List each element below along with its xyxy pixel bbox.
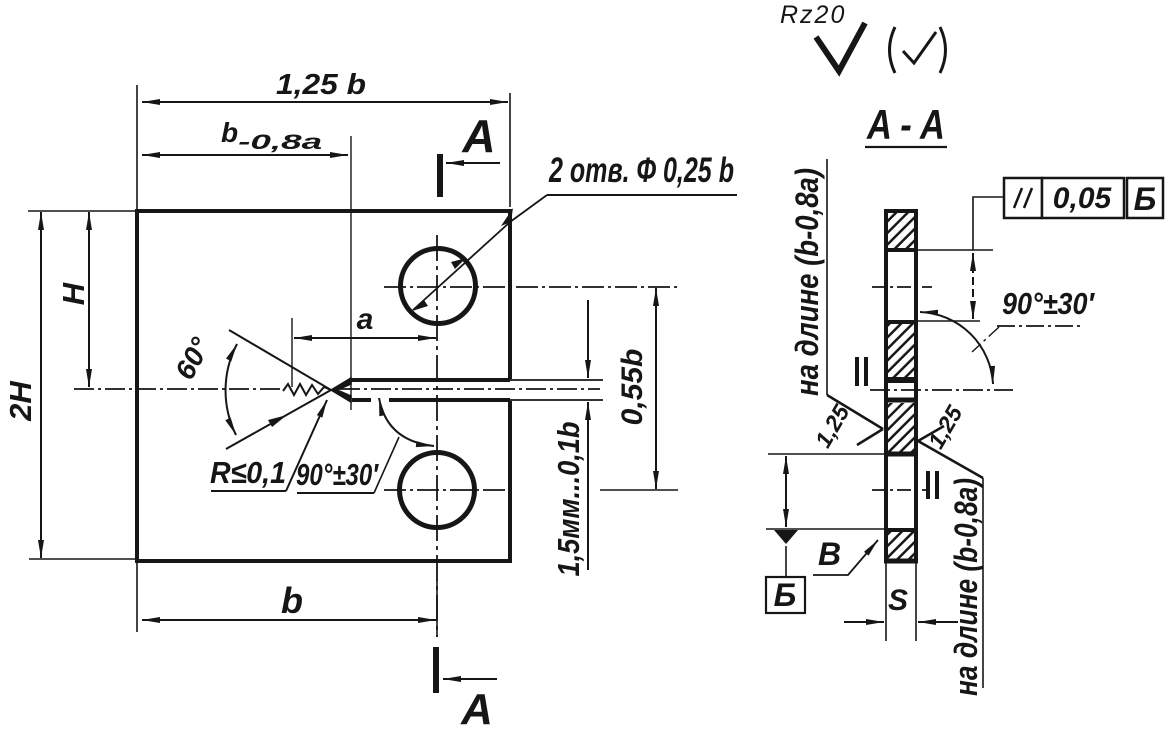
parallel mark right xyxy=(926,471,939,499)
frame leader xyxy=(973,197,1004,250)
90deg section underline xyxy=(997,325,1082,327)
section mark A bottom bar xyxy=(433,647,439,693)
90deg front underline xyxy=(297,492,374,494)
lower hole center line xyxy=(384,489,505,491)
bar top cap xyxy=(884,209,918,213)
plate right edge lower segment xyxy=(508,401,512,563)
hatch block 2 xyxy=(888,324,914,377)
bar line y250 xyxy=(884,248,918,252)
svg-text:на длине (b-0,8a): на длине (b-0,8a) xyxy=(948,478,984,696)
arrow on lower diagonal xyxy=(268,415,287,427)
svg-text:1,5мм...0,1b: 1,5мм...0,1b xyxy=(551,421,586,576)
90deg section leader xyxy=(972,327,999,352)
top extension for H,2H xyxy=(28,210,135,212)
svg-text:a: a xyxy=(357,303,374,336)
60 deg upper diagonal xyxy=(229,330,331,390)
datum triangle xyxy=(774,530,798,544)
extension y454 left xyxy=(768,453,884,455)
datum box xyxy=(766,577,805,613)
plate bottom edge xyxy=(135,559,512,563)
S extensions xyxy=(885,563,887,641)
hole diameter arrow upper xyxy=(451,258,466,269)
upper hole xyxy=(401,249,476,324)
svg-text:на длине (b-0,8a): на длине (b-0,8a) xyxy=(789,168,825,396)
mid center line left xyxy=(74,388,283,390)
svg-text:0,05: 0,05 xyxy=(1053,182,1113,215)
lower hole center extension xyxy=(600,489,678,491)
dim 0,55b line xyxy=(655,288,657,489)
tolerance frame cell 1 xyxy=(1004,178,1042,218)
bar bottom cap xyxy=(884,559,918,564)
parallel symbol in frame xyxy=(1014,188,1032,208)
svg-text:b-0,8a: b-0,8a xyxy=(221,117,323,154)
svg-text:Rz20: Rz20 xyxy=(780,1,846,29)
dim b line xyxy=(142,619,436,621)
tolerance frame cell 2 xyxy=(1042,178,1124,218)
svg-text:90°±30′: 90°±30′ xyxy=(1002,286,1095,321)
plate left edge xyxy=(135,209,139,563)
dim b bottom extensions xyxy=(136,563,138,632)
svg-text:В: В xyxy=(818,536,841,572)
dim 1,5mm lower arrow xyxy=(587,402,589,570)
dim 1,25b extension left xyxy=(136,85,138,209)
bar slot top xyxy=(884,377,918,383)
leader 2 holes xyxy=(413,195,547,310)
svg-text:b: b xyxy=(281,580,303,621)
dim a extension left xyxy=(291,318,293,387)
parallel mark left xyxy=(855,357,868,386)
roughness check mark xyxy=(816,23,865,71)
svg-text:60°: 60° xyxy=(169,332,217,385)
svg-text:H: H xyxy=(56,282,91,305)
hatch block 3 xyxy=(888,403,914,452)
90deg section arc xyxy=(920,312,993,384)
left chevron xyxy=(827,395,883,445)
svg-text:A: A xyxy=(461,110,495,162)
R<=0,1 underline xyxy=(211,490,286,492)
svg-text:A: A xyxy=(460,685,493,729)
bar right edge xyxy=(914,209,918,563)
svg-text:Б: Б xyxy=(1134,181,1157,217)
datum stem xyxy=(785,546,787,577)
hatch block 4 xyxy=(888,532,914,559)
section mark A top bar xyxy=(437,154,443,197)
90deg front leader xyxy=(374,437,399,493)
hole diameter arrow lower xyxy=(412,300,428,311)
dim 1,5mm upper arrow xyxy=(587,300,589,378)
svg-text:1,25 b: 1,25 b xyxy=(276,69,366,101)
dim notch-to-B xyxy=(785,456,787,527)
90deg front arc xyxy=(379,398,434,446)
dim 1,25b extension right xyxy=(509,93,511,207)
bar slot bottom xyxy=(884,398,918,403)
dim 2H line xyxy=(40,212,42,558)
upper hole center line xyxy=(384,286,678,288)
dim b-0.8a extension right / notch plane xyxy=(350,136,352,410)
section lower hole axis xyxy=(872,489,930,491)
lower hole xyxy=(400,453,475,528)
svg-text:90°±30′: 90°±30′ xyxy=(296,457,379,492)
svg-text:S: S xyxy=(888,584,908,617)
slot bottom edge xyxy=(352,398,510,402)
svg-text:1,25: 1,25 xyxy=(923,400,969,453)
bar line y530 xyxy=(884,528,918,532)
bar line y454 xyxy=(884,452,918,457)
leader corner blob xyxy=(501,208,513,226)
extension y529 left xyxy=(766,528,884,530)
bar left edge xyxy=(884,209,888,563)
svg-text:2 отв. Ф 0,25 b: 2 отв. Ф 0,25 b xyxy=(548,151,734,190)
B leader xyxy=(813,540,878,575)
R leader xyxy=(286,400,327,491)
label 2 otv underline xyxy=(547,194,737,196)
left leader vertical xyxy=(826,159,828,395)
plate top edge xyxy=(135,209,512,213)
plate right edge upper segment xyxy=(508,209,512,379)
slot bottom edge extension xyxy=(510,399,603,401)
svg-text:R≤0,1: R≤0,1 xyxy=(210,455,286,490)
right leader vertical xyxy=(982,478,984,688)
hole span dimension xyxy=(972,253,974,319)
extension y250 right xyxy=(918,249,993,251)
60 deg arc xyxy=(226,344,237,435)
holes vertical center line xyxy=(436,235,438,637)
slot top edge extension xyxy=(510,379,603,381)
V-notch xyxy=(331,378,351,402)
slot axis center line xyxy=(340,388,600,390)
S dim arrows xyxy=(844,621,884,623)
paren left xyxy=(890,27,896,73)
svg-text:Б: Б xyxy=(774,577,797,613)
crack zigzag xyxy=(283,384,331,395)
dim 1,25b line xyxy=(142,101,508,103)
bottom extension for 2H xyxy=(29,558,135,560)
bar line y322 xyxy=(884,320,918,324)
section mark A top arrow xyxy=(446,162,500,164)
svg-text:2H: 2H xyxy=(3,381,38,422)
svg-text:0,55b: 0,55b xyxy=(616,349,649,426)
slot top edge xyxy=(349,378,510,382)
section slot axis xyxy=(870,389,1013,391)
dim H line xyxy=(88,212,90,387)
dim a line xyxy=(294,337,436,339)
section mark A bottom arrow xyxy=(443,678,497,680)
extension y321 right xyxy=(918,320,980,322)
small check xyxy=(903,32,936,63)
tolerance frame cell 3 xyxy=(1127,178,1163,218)
dim b-0.8a line xyxy=(142,154,348,156)
60 deg lower diagonal xyxy=(226,390,331,449)
right chevron xyxy=(918,426,983,478)
section upper hole axis xyxy=(872,286,932,288)
A-A underline xyxy=(865,146,947,148)
hatch block 1 xyxy=(888,213,914,248)
svg-text:A - A: A - A xyxy=(866,101,945,148)
paren right xyxy=(940,27,946,73)
